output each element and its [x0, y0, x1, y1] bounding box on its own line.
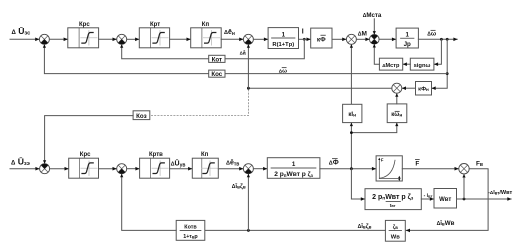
summing junction J3 [243, 34, 253, 44]
summing junction SJ (ΔМста) [370, 34, 380, 44]
summing junction J3' [243, 164, 253, 174]
label Δiвζв at J3' [232, 183, 246, 190]
block 2pпWвт ζ / tвт [365, 189, 421, 210]
svg-text:signω: signω [414, 63, 431, 69]
svg-text:кωн: кωн [391, 112, 402, 119]
label Δiвζв at ζв/Wв output [358, 223, 372, 230]
input label ΔŪзс [12, 26, 31, 37]
wire M1 down to кIн [350, 44, 353, 104]
svg-text:F: F [415, 160, 419, 167]
svg-text:Δ Ūзэ: Δ Ūзэ [11, 157, 30, 168]
wire ΔФ node down to lower flux block [351, 169, 365, 201]
block Крс (regulator, saturation) [68, 22, 99, 48]
label ΔM [358, 30, 367, 37]
label Δω on Кос line [279, 68, 287, 75]
wire Δω node down to sign block [434, 39, 442, 66]
svg-text:I: I [302, 29, 304, 36]
block 1/R(1+Tp) [268, 28, 298, 49]
wire input to J1 [10, 38, 39, 42]
label ΔФ [329, 159, 339, 167]
node dot Δω 2 [446, 38, 449, 41]
label Δēтв [226, 160, 239, 168]
block sign ω [410, 58, 434, 70]
svg-text:1: 1 [292, 161, 296, 168]
svg-text:Δīвζв: Δīвζв [358, 223, 372, 230]
wire Крс to J2 [99, 38, 117, 42]
wire Fв output down and left to ζв/Wв block [406, 169, 488, 233]
node dot ΔФ [350, 167, 353, 170]
block Кос [209, 70, 225, 78]
block Крт (regulator, saturation) [139, 22, 169, 48]
wire кФ to multiplier M1 [332, 38, 346, 42]
svg-text:Δ Ūзс: Δ Ūзс [12, 26, 31, 37]
wire Кртв to Кп' [170, 167, 193, 171]
wire Кп to J3 [221, 38, 243, 42]
label Δa [240, 51, 247, 57]
label ΔŪув [171, 160, 186, 169]
svg-text:ΔМстр: ΔМстр [382, 63, 400, 69]
wire J1' to block Крс' [50, 167, 69, 171]
block Кп (saturation) [191, 22, 222, 48]
wire M1 to summing junction SJ [356, 38, 369, 42]
multiplier FM [459, 164, 469, 174]
svg-text:Δēн: Δēн [224, 29, 235, 37]
svg-text:1+τвр: 1+τвр [183, 234, 198, 240]
block кФн [416, 82, 432, 96]
svg-text:Кп: Кп [202, 22, 210, 28]
wire Кос feedback (J1 down, line to Δω tap) [43, 44, 447, 73]
wire J2' to block Кртв [127, 167, 140, 171]
svg-text:-Δīвт/Wвт: -Δīвт/Wвт [488, 190, 513, 196]
block Коз [133, 111, 150, 120]
block Кртв (saturation) [140, 152, 170, 178]
wire I node to block кФ [299, 38, 311, 42]
wire Котв output left and up into J2' [120, 174, 176, 231]
node dot Кос tap [446, 72, 449, 75]
wire Крт to block Кп [170, 38, 191, 42]
input label ΔŪзэ [11, 157, 30, 168]
summing junction J2 [117, 34, 127, 44]
wire sign block to ΔМстр block [403, 62, 411, 66]
block Wвт [434, 189, 457, 209]
svg-text:2 pпWвт p ζз: 2 pпWвт p ζз [274, 171, 313, 178]
svg-text:кФ: кФ [317, 37, 326, 44]
summing junction J2' [117, 164, 127, 174]
node dot Δa [247, 87, 250, 90]
svg-text:1: 1 [405, 32, 409, 39]
wire Wвт output to right with arrow [457, 197, 512, 201]
wire J2 to block Крт [127, 38, 140, 42]
svg-text:Кп: Кп [201, 152, 209, 158]
wire Крс' to J2' [99, 167, 117, 171]
wire Δa node up into J3 [247, 44, 250, 88]
svg-text:Δēтв: Δēтв [226, 160, 239, 168]
svg-text:ζв: ζв [393, 225, 398, 231]
label F out [415, 160, 419, 168]
svg-text:Δω: Δω [427, 30, 436, 37]
multiplier M2 [392, 83, 402, 93]
label Δω out [427, 30, 436, 37]
svg-text:Wв: Wв [391, 235, 400, 241]
svg-text:Крт: Крт [150, 22, 160, 28]
svg-text:1: 1 [282, 31, 286, 38]
wire Wвт node up into FM [462, 174, 465, 199]
wire ΔМста down into SJ [373, 19, 376, 35]
svg-text:Jp: Jp [404, 41, 411, 48]
svg-text:кIн: кIн [348, 112, 356, 119]
wire F block to multiplier FM [402, 167, 458, 171]
svg-text:Крс: Крс [80, 152, 91, 158]
svg-text:Δīвζв: Δīвζв [232, 183, 246, 190]
wire feed from ΔФ node up into кIн and кωн [350, 123, 399, 169]
label Δēн [224, 29, 235, 37]
dashed wire Δa node to Коз [150, 90, 248, 116]
wire flux block to F block [320, 167, 376, 171]
wire J1 to block Крс [49, 38, 67, 42]
svg-text:ΔМста: ΔМста [363, 12, 382, 19]
summing junction J1' [40, 164, 50, 174]
block 1/(2pпWвт p ζ) [267, 158, 320, 179]
wire ΔМстр up into SJ [373, 44, 380, 64]
label -iвт [424, 193, 433, 199]
node dot on I line [303, 38, 306, 41]
svg-text:Кос: Кос [211, 71, 222, 78]
block Кп' (saturation) [192, 152, 218, 178]
block кIн [343, 104, 362, 122]
svg-text:2 pпWвт p ζз: 2 pпWвт p ζз [372, 194, 414, 202]
wire M2 output left to Δa node [248, 87, 391, 89]
wire Δω output with arrow [418, 38, 457, 42]
wire SJ to block 1/Jp [379, 38, 396, 42]
block кωн [387, 104, 407, 123]
wire lower flux block to Wвт [421, 197, 434, 201]
label ΔМста [363, 12, 382, 19]
wire input to J1' [10, 167, 40, 171]
block Крс (field loop, saturation) [69, 152, 99, 178]
label -Δiвт/Wвт [488, 190, 513, 196]
node dot Δω 1 [440, 38, 443, 41]
wire field feedback up into J3' [247, 174, 250, 231]
svg-text:ΔŪув: ΔŪув [171, 160, 186, 169]
svg-text:Fв: Fв [476, 160, 483, 168]
svg-text:Кот: Кот [212, 56, 222, 63]
label Fв [476, 160, 483, 168]
block ζв/Wв [385, 220, 405, 241]
wire Δω node 2 down to Кос line and кФн [432, 39, 448, 90]
node dot Wвт out [463, 198, 466, 201]
svg-text:Δā: Δā [240, 51, 247, 57]
svg-text:Крс: Крс [79, 22, 90, 28]
svg-text:ΔM: ΔM [358, 30, 367, 37]
svg-text:ΔīвWв: ΔīвWв [437, 220, 455, 227]
wire J3 to block 1/R(1+Tp) [253, 38, 268, 42]
node dot field feedback [247, 229, 250, 232]
wire кωн up to M2 [395, 93, 398, 104]
svg-text:Котв: Котв [184, 225, 197, 231]
wire J3' to flux block [253, 167, 267, 171]
multiplier M1 [346, 34, 356, 44]
svg-text:кФн: кФн [418, 87, 429, 93]
svg-text:Wвт: Wвт [439, 197, 451, 203]
label ΔiвWв [437, 220, 455, 227]
block ΔМстр [379, 58, 402, 70]
block 1/Jp [396, 28, 418, 48]
svg-text:Коз: Коз [136, 113, 147, 120]
wire Кп' to J3' [218, 167, 243, 171]
svg-text:tвт: tвт [390, 203, 396, 208]
block кФ [311, 28, 332, 48]
block Кот [209, 55, 225, 63]
svg-text:F: F [381, 157, 384, 162]
summing junction J1 [39, 34, 49, 44]
block F curve (magnetization) [376, 156, 402, 181]
svg-text:Кртв: Кртв [149, 152, 163, 158]
svg-text:R(1+Tp): R(1+Tp) [272, 42, 294, 48]
node dot on кIн branch [350, 131, 353, 134]
wire ζв/Wв output left to Котв [205, 229, 385, 231]
label I (current) [302, 29, 304, 36]
wire кФн to multiplier M2 [402, 86, 416, 90]
wire Коз left and down into J1' [43, 116, 133, 164]
wire Кот feedback (J2 down, line to I node) [120, 39, 304, 58]
block Котв/(1+τв p) [176, 220, 205, 240]
svg-text:ΔФ: ΔФ [329, 160, 339, 167]
